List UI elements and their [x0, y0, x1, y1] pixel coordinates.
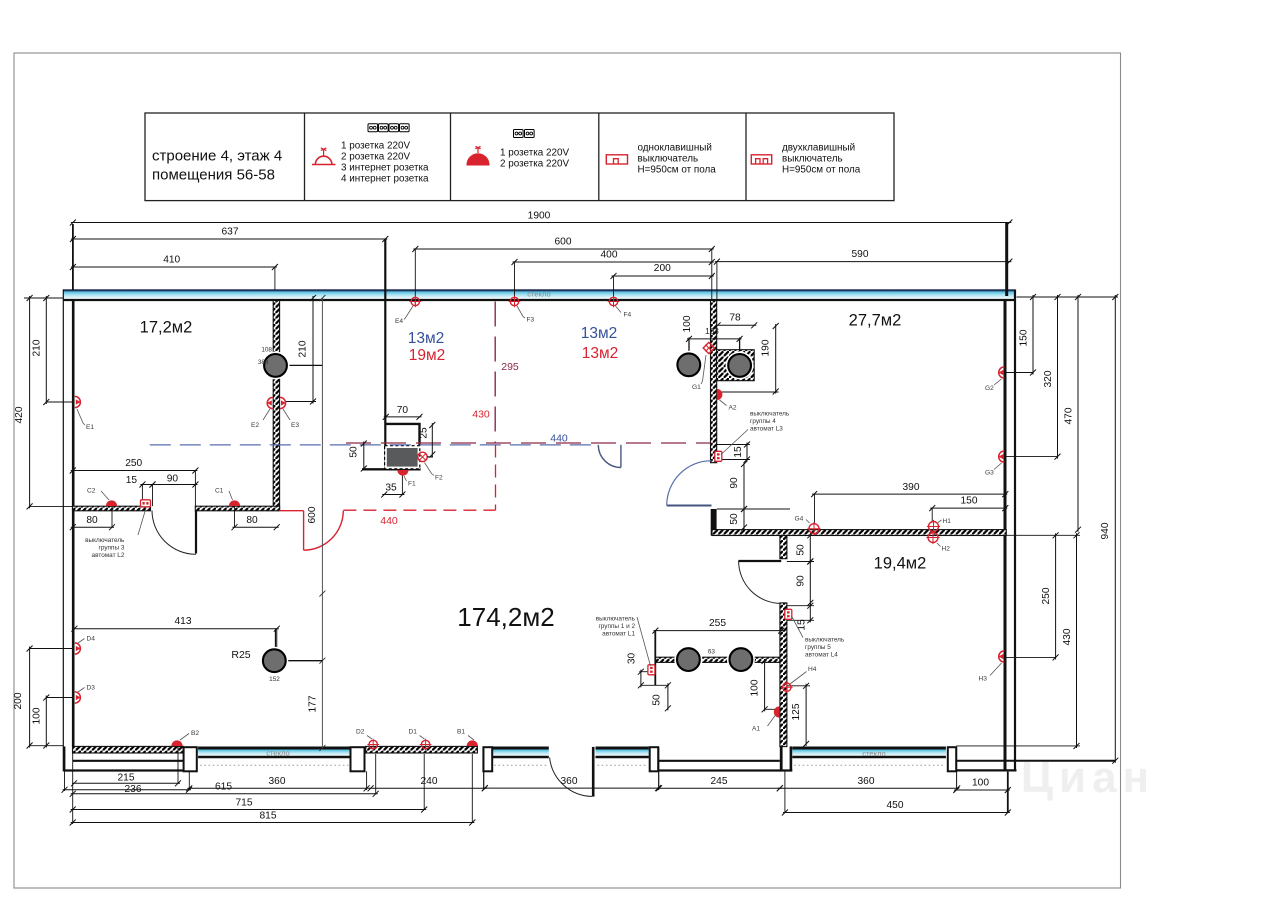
- svg-text:360: 360: [269, 776, 286, 787]
- svg-text:360: 360: [858, 776, 875, 787]
- svg-text:1 розетка 220V: 1 розетка 220V: [341, 141, 410, 152]
- svg-text:108: 108: [261, 347, 272, 354]
- svg-text:590: 590: [852, 249, 869, 260]
- svg-text:15: 15: [733, 446, 744, 458]
- svg-text:B1: B1: [457, 729, 465, 736]
- svg-text:715: 715: [236, 798, 253, 809]
- svg-text:выключатель: выключатель: [805, 637, 845, 644]
- svg-text:2 розетка 220V: 2 розетка 220V: [341, 152, 410, 163]
- svg-text:80: 80: [86, 515, 98, 526]
- svg-text:3 интернет розетка: 3 интернет розетка: [341, 163, 429, 174]
- svg-text:1900: 1900: [528, 211, 551, 222]
- svg-text:H2: H2: [942, 546, 951, 553]
- svg-text:152: 152: [269, 676, 280, 683]
- svg-text:150: 150: [1019, 329, 1030, 346]
- svg-text:100: 100: [972, 778, 989, 789]
- svg-text:G3: G3: [985, 470, 994, 477]
- svg-text:D4: D4: [87, 636, 96, 643]
- svg-text:13м2: 13м2: [408, 330, 445, 347]
- svg-text:200: 200: [13, 692, 24, 709]
- svg-text:440: 440: [550, 433, 568, 445]
- svg-text:400: 400: [601, 250, 618, 261]
- svg-text:70: 70: [397, 405, 409, 416]
- svg-text:17,2м2: 17,2м2: [140, 319, 193, 337]
- svg-text:19м2: 19м2: [409, 347, 446, 364]
- svg-text:19,4м2: 19,4м2: [874, 555, 927, 573]
- svg-text:выключатель: выключатель: [596, 616, 636, 623]
- svg-text:240: 240: [421, 776, 438, 787]
- svg-text:выключатель: выключатель: [638, 154, 699, 165]
- svg-text:F1: F1: [408, 481, 416, 488]
- svg-text:815: 815: [260, 811, 277, 822]
- svg-text:390: 390: [903, 482, 920, 493]
- svg-text:автомат L3: автомат L3: [750, 426, 783, 433]
- svg-text:стекло: стекло: [862, 749, 886, 758]
- svg-text:236: 236: [125, 784, 142, 795]
- svg-text:13м2: 13м2: [581, 325, 618, 342]
- svg-text:600: 600: [307, 506, 318, 523]
- svg-text:100: 100: [32, 707, 43, 724]
- svg-text:80: 80: [246, 515, 258, 526]
- svg-text:940: 940: [1100, 522, 1111, 539]
- svg-text:C2: C2: [87, 488, 96, 495]
- svg-text:группы 5: группы 5: [805, 644, 831, 651]
- svg-text:50: 50: [796, 544, 807, 556]
- svg-text:100: 100: [750, 679, 761, 696]
- svg-text:430: 430: [472, 409, 490, 421]
- svg-text:210: 210: [298, 340, 309, 357]
- svg-text:413: 413: [175, 616, 192, 627]
- svg-text:D1: D1: [409, 729, 418, 736]
- svg-text:выключатель: выключатель: [85, 537, 125, 544]
- svg-text:210: 210: [32, 339, 43, 356]
- svg-text:автомат L2: автомат L2: [92, 552, 125, 559]
- svg-text:выключатель: выключатель: [782, 154, 843, 165]
- svg-text:250: 250: [125, 458, 142, 469]
- svg-text:600: 600: [555, 237, 572, 248]
- svg-text:D2: D2: [356, 729, 365, 736]
- svg-text:470: 470: [1064, 407, 1075, 424]
- svg-text:410: 410: [163, 255, 180, 266]
- svg-text:360: 360: [561, 776, 578, 787]
- svg-text:E3: E3: [291, 422, 299, 429]
- svg-text:250: 250: [1041, 587, 1052, 604]
- svg-text:30: 30: [627, 653, 638, 665]
- svg-text:50: 50: [729, 513, 740, 525]
- svg-text:группы 3: группы 3: [99, 545, 125, 552]
- svg-text:G1: G1: [692, 384, 701, 391]
- svg-text:440: 440: [380, 515, 398, 527]
- svg-text:двухклавишный: двухклавишный: [782, 143, 855, 154]
- svg-text:200: 200: [654, 263, 671, 274]
- svg-text:A2: A2: [729, 405, 737, 412]
- svg-text:автомат L1: автомат L1: [602, 631, 635, 638]
- svg-text:90: 90: [167, 474, 179, 485]
- svg-text:430: 430: [1062, 628, 1073, 645]
- svg-text:D3: D3: [87, 685, 96, 692]
- svg-text:1 розетка 220V: 1 розетка 220V: [500, 148, 569, 159]
- svg-text:25: 25: [419, 427, 430, 439]
- svg-text:R25: R25: [231, 649, 250, 661]
- svg-text:420: 420: [14, 406, 25, 423]
- svg-text:255: 255: [709, 618, 726, 629]
- svg-text:615: 615: [215, 782, 232, 793]
- svg-text:320: 320: [1043, 370, 1054, 387]
- svg-text:103: 103: [705, 327, 719, 336]
- svg-text:H1: H1: [943, 518, 952, 525]
- svg-text:35: 35: [385, 483, 397, 494]
- svg-text:автомат L4: автомат L4: [805, 652, 838, 659]
- svg-text:78: 78: [729, 313, 741, 324]
- svg-text:174,2м2: 174,2м2: [457, 602, 554, 632]
- svg-text:стекло: стекло: [527, 290, 551, 299]
- svg-text:150: 150: [961, 496, 978, 507]
- svg-text:13м2: 13м2: [582, 345, 619, 362]
- svg-text:450: 450: [887, 800, 904, 811]
- svg-text:63: 63: [708, 649, 716, 656]
- svg-text:388: 388: [258, 359, 269, 366]
- svg-text:245: 245: [711, 776, 728, 787]
- svg-text:строение 4, этаж 4: строение 4, этаж 4: [152, 148, 282, 165]
- svg-text:G4: G4: [795, 516, 804, 523]
- svg-text:G2: G2: [985, 385, 994, 392]
- svg-text:177: 177: [308, 695, 319, 712]
- svg-text:15: 15: [126, 475, 138, 486]
- svg-text:637: 637: [222, 227, 239, 238]
- svg-text:группы 4: группы 4: [750, 418, 776, 425]
- svg-text:E1: E1: [86, 424, 94, 431]
- svg-text:2 розетка 220V: 2 розетка 220V: [500, 159, 569, 170]
- svg-text:H4: H4: [808, 666, 817, 673]
- svg-text:190: 190: [761, 339, 772, 356]
- svg-text:50: 50: [652, 694, 663, 706]
- svg-text:стекло: стекло: [266, 748, 290, 757]
- svg-text:E2: E2: [251, 422, 259, 429]
- svg-text:F2: F2: [435, 475, 443, 482]
- svg-text:группы 1 и 2: группы 1 и 2: [598, 623, 635, 630]
- svg-text:4 интернет розетка: 4 интернет розетка: [341, 174, 429, 185]
- svg-text:295: 295: [501, 361, 519, 373]
- svg-text:C1: C1: [215, 488, 224, 495]
- svg-text:F3: F3: [527, 317, 535, 324]
- svg-text:B2: B2: [191, 730, 199, 737]
- svg-text:H3: H3: [979, 676, 988, 683]
- svg-text:125: 125: [791, 703, 802, 720]
- svg-text:выключатель: выключатель: [750, 411, 790, 418]
- svg-text:90: 90: [729, 477, 740, 489]
- svg-text:50: 50: [349, 446, 360, 458]
- svg-text:H=950см от пола: H=950см от пола: [638, 165, 717, 176]
- svg-text:помещения 56-58: помещения 56-58: [152, 167, 275, 184]
- svg-text:215: 215: [118, 773, 135, 784]
- svg-text:27,7м2: 27,7м2: [849, 312, 902, 330]
- svg-text:H=950см от пола: H=950см от пола: [782, 165, 861, 176]
- svg-text:одноклавишный: одноклавишный: [638, 143, 712, 154]
- svg-text:90: 90: [796, 575, 807, 587]
- svg-text:A1: A1: [752, 726, 760, 733]
- svg-text:E4: E4: [395, 318, 403, 325]
- svg-text:100: 100: [682, 315, 693, 332]
- svg-text:F4: F4: [624, 312, 632, 319]
